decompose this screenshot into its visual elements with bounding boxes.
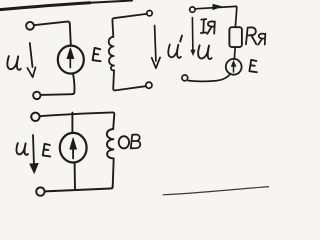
source E3 bbox=[226, 59, 242, 75]
wire resistor to source E3 bbox=[233, 47, 236, 59]
label U' bbox=[168, 45, 181, 58]
terminal T2 bbox=[33, 92, 40, 99]
stub wire bottom of E4 bbox=[74, 163, 76, 189]
voltage arrow U' bbox=[155, 26, 156, 62]
arrow inside E4 bbox=[72, 148, 74, 159]
terminal T8 bbox=[36, 187, 44, 195]
source E4 bbox=[60, 133, 87, 163]
label E (E4) bbox=[43, 144, 50, 157]
terminal T3 bbox=[147, 11, 152, 16]
wire E3 to T6 bbox=[188, 74, 230, 82]
inductor coil L bbox=[109, 37, 114, 71]
resistor Rя bbox=[229, 27, 242, 47]
voltage arrow U (circuit 1) bbox=[30, 43, 33, 67]
wire E1 to T2 bbox=[41, 73, 75, 95]
wire T1 to source E1 bbox=[34, 22, 71, 45]
label E (E3) bbox=[249, 60, 256, 72]
wire T5 to resistor, with corner bbox=[195, 6, 237, 27]
label Rя bbox=[246, 27, 256, 44]
stub wire top of E4 bbox=[71, 113, 73, 133]
label U (circuit 1) bbox=[7, 56, 20, 70]
wire winding to T8 bbox=[45, 186, 113, 191]
wire T3 to coil bbox=[112, 14, 146, 37]
source E1 bbox=[58, 46, 84, 74]
voltage arrow U (circuit 4) bbox=[32, 135, 35, 164]
current arrowhead Iя bbox=[213, 4, 222, 10]
label U (circuit 3) bbox=[198, 45, 211, 59]
wire coil to T4 bbox=[113, 70, 146, 90]
terminal T7 bbox=[31, 113, 39, 121]
label OB bbox=[119, 136, 129, 148]
field winding OB bbox=[107, 129, 114, 186]
wire T7 to winding bbox=[40, 112, 115, 129]
voltage arrow U (circuit 3) bbox=[191, 18, 194, 52]
arrow inside E3 bbox=[233, 64, 235, 72]
terminal T4 bbox=[146, 82, 152, 88]
label U (circuit 4) bbox=[16, 143, 27, 155]
terminal T5 bbox=[190, 7, 195, 12]
terminal T1 bbox=[26, 22, 34, 30]
arrow inside E1 bbox=[69, 54, 71, 68]
terminal T6 bbox=[182, 75, 188, 81]
label Iя bbox=[201, 19, 206, 33]
label E (E1) bbox=[93, 48, 101, 61]
